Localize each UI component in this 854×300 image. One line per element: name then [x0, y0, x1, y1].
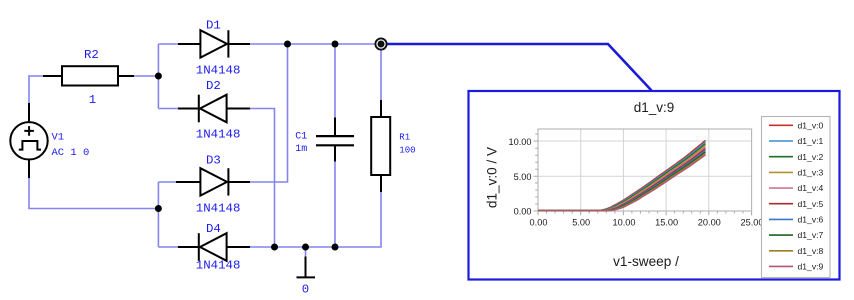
svg-text:d1_v:0 / V: d1_v:0 / V [484, 147, 499, 208]
svg-text:C1: C1 [295, 131, 307, 142]
x axis tick labels [530, 218, 764, 228]
wire V1 bottom to node B [29, 178, 158, 209]
plot gridlines [538, 129, 752, 211]
svg-text:5.00: 5.00 [514, 172, 532, 182]
wire D2 anode down to bottom rail [248, 109, 275, 248]
svg-text:V1: V1 [52, 132, 65, 144]
junction node ground rail [302, 244, 309, 251]
resistor R1 [371, 100, 390, 192]
wire node B vertical D3-D4 [157, 182, 159, 247]
diode D2 [178, 95, 250, 123]
legend entries [769, 125, 793, 266]
wire C1 bottom [334, 161, 336, 247]
svg-text:1N4148: 1N4148 [196, 64, 241, 78]
svg-text:1N4148: 1N4148 [196, 201, 241, 215]
svg-text:d1_v:4: d1_v:4 [798, 183, 824, 193]
svg-text:10.00: 10.00 [509, 137, 532, 147]
wire D3 cathode up to top rail [250, 44, 288, 182]
svg-text:5.00: 5.00 [572, 218, 590, 228]
wire top rail D1 cathode to probe [250, 43, 381, 45]
svg-text:20.00: 20.00 [698, 218, 721, 228]
wire ground stub [305, 247, 307, 257]
junction node C1 top rail [332, 41, 339, 48]
voltage source V1 [10, 103, 47, 178]
ground [297, 257, 316, 278]
plot window frame [469, 91, 840, 280]
svg-text:d1_v:2: d1_v:2 [798, 152, 824, 162]
svg-text:0.00: 0.00 [514, 207, 532, 217]
junction node R2-bridge [155, 73, 162, 80]
wire C1 top [334, 44, 336, 118]
svg-text:d1_v:3: d1_v:3 [798, 168, 824, 178]
plot area border [538, 129, 752, 211]
junction node D2 bottom rail [271, 244, 278, 251]
svg-text:d1_v:0: d1_v:0 [798, 120, 824, 130]
svg-text:1N4148: 1N4148 [196, 128, 241, 142]
wire node A vertical D1-D2 [157, 44, 159, 109]
junction node V1-bridge [155, 205, 162, 212]
svg-text:25.00: 25.00 [741, 218, 764, 228]
svg-text:100: 100 [399, 146, 415, 156]
capacitor C1 [316, 118, 354, 162]
junction node D3 top rail [284, 41, 291, 48]
diode D4 [178, 233, 250, 261]
curves d1_v:0..9 [538, 140, 706, 210]
svg-text:D1: D1 [206, 19, 221, 33]
svg-text:15.00: 15.00 [655, 218, 678, 228]
diode D1 [178, 30, 250, 57]
svg-text:D2: D2 [206, 79, 221, 93]
svg-text:0.00: 0.00 [530, 218, 548, 228]
diode D3 [176, 168, 250, 195]
svg-text:R2: R2 [84, 48, 99, 62]
probe marker [375, 38, 386, 49]
resistor R2 [43, 66, 134, 85]
svg-text:1N4148: 1N4148 [196, 259, 241, 273]
wire to D3 anode [158, 181, 176, 183]
y axis tick labels [509, 137, 532, 217]
svg-text:d1_v:9: d1_v:9 [798, 262, 824, 272]
wire R2 to node A column [134, 75, 158, 77]
wire V1 top to R2 [29, 76, 44, 104]
wire to D1 anode [158, 43, 178, 45]
wire bottom rail D4 anode to R1 [248, 192, 381, 247]
axis ticks [534, 134, 752, 215]
svg-text:d1_v:7: d1_v:7 [798, 230, 824, 240]
svg-text:d1_v:9: d1_v:9 [634, 100, 675, 115]
svg-text:10.00: 10.00 [613, 218, 636, 228]
svg-text:R1: R1 [399, 133, 410, 143]
svg-text:d1_v:8: d1_v:8 [798, 246, 824, 256]
svg-text:d1_v:6: d1_v:6 [798, 215, 824, 225]
svg-text:1: 1 [89, 93, 96, 107]
svg-text:D3: D3 [206, 154, 221, 168]
svg-text:d1_v:5: d1_v:5 [798, 199, 824, 209]
wire to D4 cathode [158, 246, 178, 248]
svg-text:d1_v:1: d1_v:1 [798, 136, 824, 146]
junction node C1 bottom rail [332, 244, 339, 251]
svg-text:1m: 1m [295, 144, 307, 155]
svg-text:v1-sweep /: v1-sweep / [613, 254, 679, 269]
legend box [762, 117, 831, 278]
probe callout wire to plot window [385, 44, 652, 91]
svg-text:0: 0 [302, 282, 309, 296]
svg-text:D4: D4 [206, 222, 221, 236]
svg-text:AC 1 0: AC 1 0 [52, 147, 90, 159]
legend labels [798, 120, 824, 271]
wire probe to R1 top [380, 44, 382, 100]
wire to D2 cathode [158, 108, 178, 110]
